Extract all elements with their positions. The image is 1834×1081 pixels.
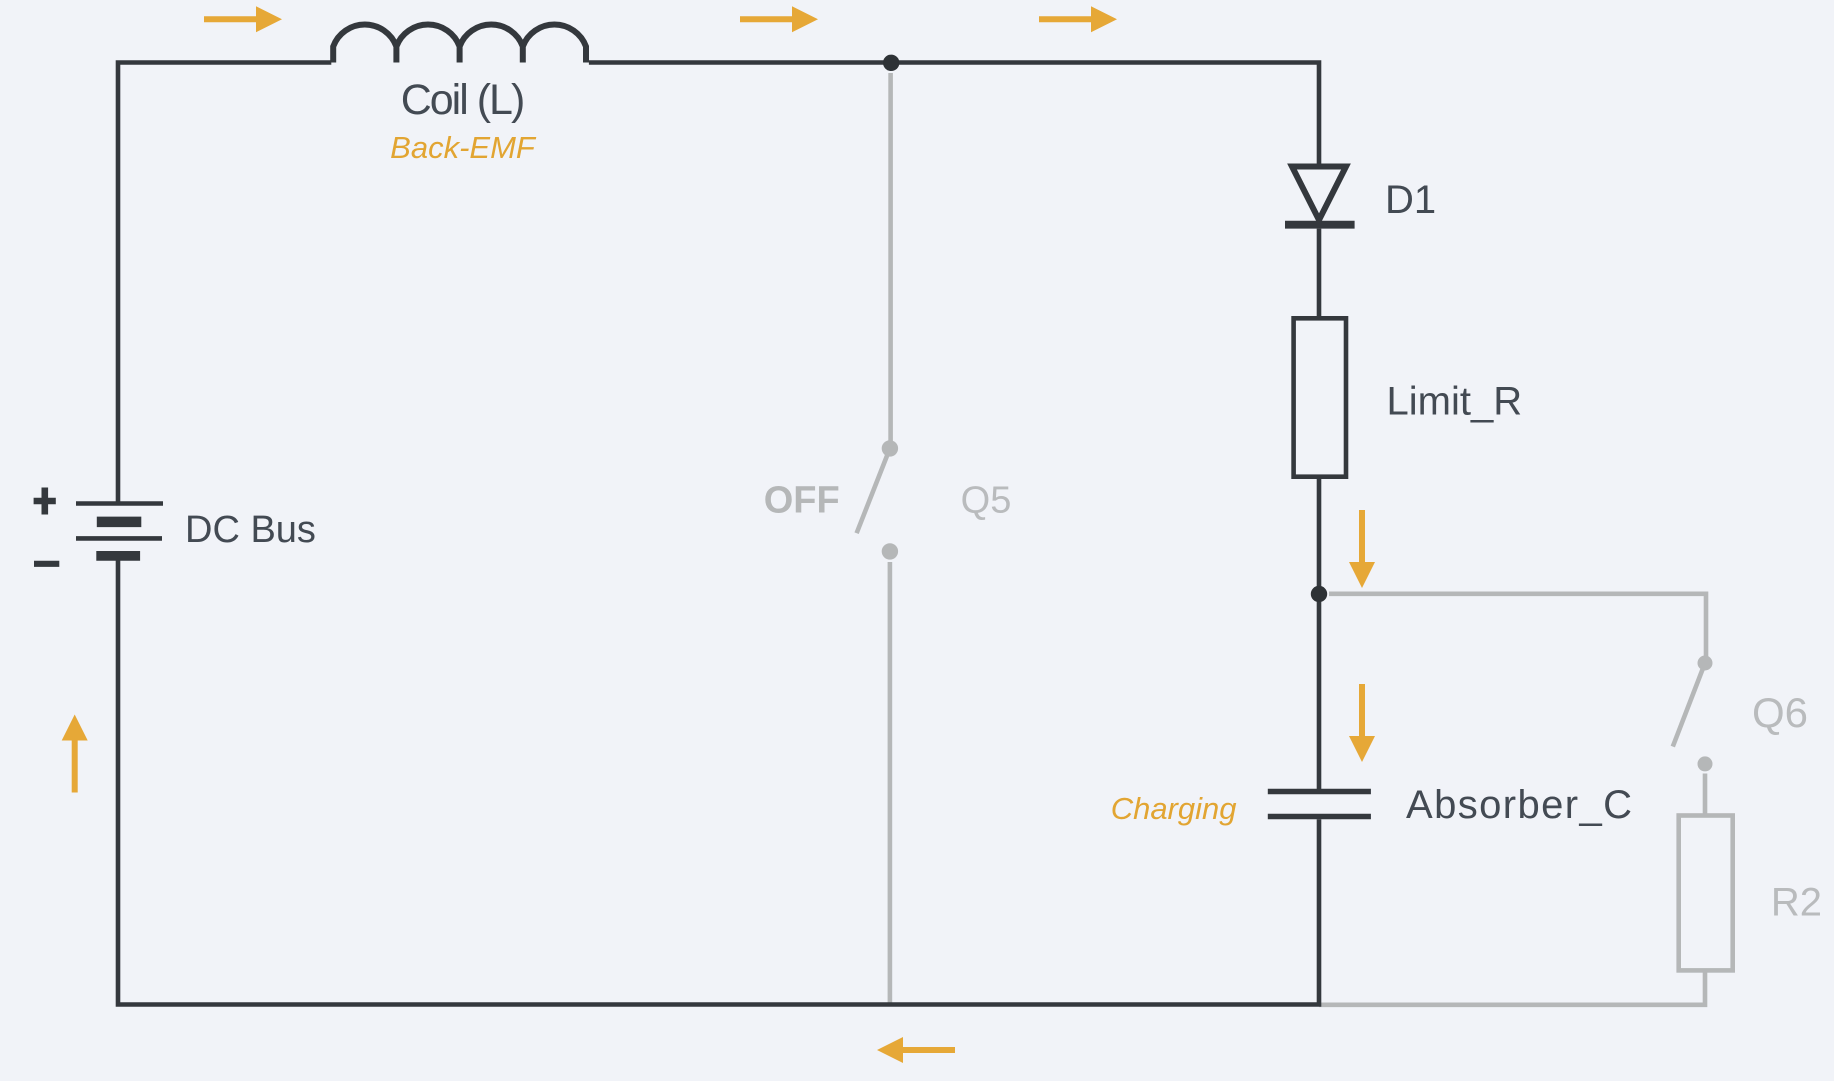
svg-text:Absorber_C: Absorber_C bbox=[1406, 783, 1633, 827]
svg-text:Limit_R: Limit_R bbox=[1387, 379, 1523, 423]
diode D1 (triangle + cathode bar) bbox=[1292, 167, 1346, 221]
wire from coil right and down to diode D1 bbox=[589, 63, 1319, 164]
battery - terminal sign bbox=[34, 561, 59, 567]
switch Q5 top contact dot bbox=[882, 440, 898, 456]
resistor R2 bbox=[1679, 816, 1733, 971]
svg-text:DC Bus: DC Bus bbox=[185, 509, 316, 551]
capacitor Absorber_C (two plates) bbox=[1268, 792, 1371, 817]
wire R2 bottom down and left to bottom wire bbox=[1319, 970, 1705, 1004]
wire diode to resistor Limit_R bbox=[1317, 229, 1322, 319]
wire resistor to capacitor bbox=[1317, 477, 1322, 789]
current arrow bottom (left) bbox=[877, 1037, 955, 1063]
svg-text:Back-EMF: Back-EMF bbox=[390, 130, 537, 165]
switch Q5 blade (open) bbox=[857, 448, 890, 533]
current arrow top-right (right) bbox=[1039, 6, 1117, 32]
switch Q6 blade (open) bbox=[1673, 663, 1705, 747]
switch Q6 bottom contact dot bbox=[1698, 756, 1713, 771]
node B (junction of right branch and Q6 branch) bbox=[1311, 586, 1327, 602]
switch Q5 wire from bottom contact down to bottom wire bbox=[888, 562, 893, 1005]
current arrow top-middle (right) bbox=[740, 6, 818, 32]
wire from node B right and down to switch Q6 bbox=[1329, 594, 1706, 663]
battery DC Bus plates bbox=[76, 501, 163, 506]
wire capacitor down, bottom wire left, and left wire up to battery - bbox=[118, 559, 1319, 1005]
svg-text:Q6: Q6 bbox=[1752, 689, 1808, 736]
wire from battery + up and right to coil bbox=[118, 63, 331, 502]
current arrow left side (up) bbox=[62, 715, 88, 793]
svg-text:Charging: Charging bbox=[1111, 791, 1237, 826]
svg-text:Q5: Q5 bbox=[961, 480, 1012, 522]
current arrow above node B (down) bbox=[1349, 510, 1375, 588]
svg-text:OFF: OFF bbox=[764, 480, 840, 522]
current arrow top-left (right) bbox=[204, 6, 282, 32]
node A (junction of top wire and Q5 branch) bbox=[883, 55, 899, 71]
switch Q5 wire from node A down to top contact bbox=[888, 73, 893, 448]
svg-text:D1: D1 bbox=[1385, 178, 1436, 222]
resistor Limit_R bbox=[1294, 318, 1346, 476]
coil L (inductor, 4 humps) bbox=[333, 25, 586, 63]
svg-text:Coil (L): Coil (L) bbox=[401, 76, 524, 124]
current arrow above capacitor (down) bbox=[1349, 684, 1375, 762]
battery + terminal sign bbox=[34, 488, 56, 515]
switch Q5 bottom contact dot bbox=[882, 543, 898, 559]
svg-text:R2: R2 bbox=[1771, 881, 1822, 925]
wire switch Q6 to resistor R2 bbox=[1703, 774, 1708, 816]
switch Q6 top contact dot bbox=[1698, 656, 1713, 671]
